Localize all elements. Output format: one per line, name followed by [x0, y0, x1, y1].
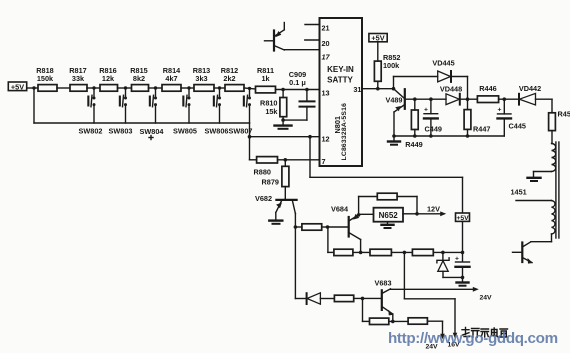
- power +5V box (top, above R852): [369, 34, 387, 43]
- transistor V683: [375, 279, 394, 322]
- wire R810/C909 bottom link: [283, 119, 307, 121]
- switch SW806: [205, 88, 229, 136]
- wire 24V lower branch: [426, 321, 445, 350]
- svg-text:R451: R451: [558, 110, 570, 119]
- junction node SW806 tap: [218, 86, 221, 89]
- svg-text:17: 17: [322, 53, 331, 62]
- svg-text:V489: V489: [385, 96, 402, 105]
- wire pin12 to +5V link: [310, 137, 463, 213]
- svg-text:8k2: 8k2: [133, 74, 145, 83]
- wire R815-R814: [149, 87, 163, 89]
- transistor V682: [255, 194, 297, 220]
- wire row2 (V683 emitter row): [389, 320, 443, 322]
- svg-text:13: 13: [322, 89, 330, 98]
- switch SW802: [79, 88, 103, 136]
- svg-text:21: 21: [322, 24, 330, 33]
- wire pin12 line: [250, 136, 320, 138]
- svg-text:+: +: [424, 107, 428, 114]
- resistor R817 33k: [69, 66, 87, 91]
- wire V684 base: [328, 226, 349, 228]
- resistor R447: [464, 99, 490, 136]
- junction node rail/R449: [413, 134, 417, 138]
- diode VD (V683 base): [307, 293, 321, 304]
- junction node row/+5V: [461, 251, 465, 255]
- wire base node drop to row: [328, 227, 334, 252]
- transformer T451 secondary coil: [552, 201, 555, 235]
- svg-text:1k: 1k: [261, 74, 270, 83]
- junction node ground link: [281, 118, 285, 122]
- wire pin7 line: [278, 159, 320, 161]
- junction node pin12/+5V drop: [308, 135, 312, 139]
- svg-text:12k: 12k: [102, 74, 115, 83]
- junction node V682/R-base: [294, 225, 298, 229]
- transistor V489: [385, 89, 404, 136]
- svg-text:R446: R446: [479, 84, 496, 93]
- switch SW803: [109, 88, 133, 136]
- resistor R449: [405, 99, 422, 149]
- wire coil2 bottom to Q2 collector: [531, 234, 552, 242]
- wire R818-R817: [57, 87, 70, 89]
- resistor R (loop above N652): [377, 193, 397, 200]
- junction node C449 top: [429, 97, 433, 101]
- svg-text:N652: N652: [379, 211, 399, 220]
- svg-text:R879: R879: [262, 178, 279, 187]
- capacitor C (electrolytic at +5V): [455, 256, 470, 278]
- switch SW804: [140, 88, 165, 140]
- svg-text:VD442: VD442: [519, 84, 541, 93]
- wire V682 collector drop: [294, 214, 296, 299]
- resistor R880: [250, 157, 278, 177]
- svg-text:7: 7: [322, 157, 326, 166]
- svg-text:V684: V684: [331, 205, 349, 214]
- transistor Q_top (PNP at pin 17): [265, 23, 285, 51]
- wire R812-R811: [244, 88, 256, 89]
- wire ground rail (V489 stage): [394, 135, 504, 137]
- svg-text:V683: V683: [375, 279, 392, 288]
- transformer T451 primary coil: [552, 144, 556, 172]
- wire bottom row (V684 emitter row): [353, 251, 463, 253]
- wire VD448 cathode to node: [460, 98, 478, 100]
- resistor R813 3k3: [193, 66, 214, 91]
- ground (V682 emitter): [269, 221, 282, 224]
- svg-text:SW804: SW804: [140, 127, 165, 136]
- junction node V489 base / VD445 branch: [392, 87, 396, 91]
- wire 16V branch: [404, 252, 460, 348]
- junction node bus/pin12: [248, 135, 252, 139]
- svg-text:2k2: 2k2: [223, 74, 235, 83]
- transistor Q2 (output, bottom right): [513, 242, 533, 264]
- wire V489 collector line: [405, 98, 446, 100]
- wire VD445 cathode to node: [451, 77, 468, 100]
- svg-text:C449: C449: [425, 125, 442, 134]
- resistor RC (row): [412, 249, 433, 255]
- junction node R810 top: [281, 88, 285, 92]
- wire bus corner down to pin12 line: [249, 123, 251, 160]
- junction node C445 top: [503, 97, 507, 101]
- svg-text:VD448: VD448: [440, 85, 462, 94]
- diode VD448: [440, 85, 462, 105]
- node label: to switching power supply (Chinese): [462, 328, 508, 338]
- svg-text:24V: 24V: [480, 295, 493, 302]
- junction node rail/emitter: [392, 134, 396, 138]
- wire pin13 line (R811 to IC): [276, 89, 320, 91]
- svg-text:V682: V682: [255, 194, 272, 203]
- ground (below R810): [275, 120, 292, 129]
- pin 17 wire: [284, 49, 319, 51]
- junction node rail/C449: [429, 134, 433, 138]
- svg-text:3k3: 3k3: [195, 74, 207, 83]
- pin 20 stub wire: [305, 39, 320, 41]
- resistor R814 4k7: [162, 66, 181, 91]
- junction node R852 bottom: [376, 87, 380, 91]
- resistor R816 12k: [99, 66, 117, 91]
- junction node V684 base: [326, 225, 330, 229]
- wire N652 output: [403, 213, 417, 215]
- resistor R812 2k2: [221, 66, 244, 91]
- resistor R446: [477, 84, 498, 103]
- resistor R451 (clipped at edge): [549, 110, 570, 144]
- switch SW805: [173, 88, 197, 136]
- junction node row/V684 emitter: [359, 251, 363, 255]
- transformer label 1451: [511, 188, 527, 197]
- svg-text:R447: R447: [473, 125, 490, 134]
- wire +5V box down to row: [462, 221, 464, 261]
- regulator N652: [374, 208, 404, 222]
- junction node SW804 tap: [154, 86, 157, 89]
- transformer T451 core: [556, 142, 559, 238]
- resistor R811 1k: [256, 66, 276, 93]
- wire +5V to R818: [27, 87, 38, 89]
- wire R817-R816: [87, 87, 100, 89]
- junction node R446 left / R447 / VD445: [466, 97, 470, 101]
- power +5V box (bottom right): [456, 213, 470, 222]
- ground (N652): [382, 222, 394, 228]
- wire diode to resistor: [320, 298, 334, 300]
- wire base resistor to V683: [354, 297, 382, 299]
- junction node SW805 tap: [187, 86, 190, 89]
- wire R813-R812: [214, 87, 225, 89]
- junction node 12V: [415, 212, 419, 216]
- svg-text:20: 20: [322, 39, 330, 48]
- junction node R879 top: [284, 158, 288, 162]
- wire 24V line (V683 collector): [391, 287, 493, 302]
- wire feedback loop up: [359, 197, 378, 215]
- resistor RA (row): [334, 249, 353, 255]
- svg-text:http://www.go-gddq.com: http://www.go-gddq.com: [388, 330, 558, 347]
- svg-text:SATTY: SATTY: [327, 76, 353, 85]
- resistor RB (row): [370, 249, 391, 255]
- resistor R (V683 base): [334, 295, 353, 301]
- svg-text:R449: R449: [405, 140, 422, 149]
- resistor R818 150k: [36, 66, 57, 91]
- wire left vertical to switch bus: [33, 88, 35, 123]
- junction node R449 top: [413, 97, 417, 101]
- switch SW807: [229, 88, 253, 135]
- svg-text:SW803: SW803: [109, 127, 133, 136]
- wire N652 input: [359, 213, 374, 215]
- svg-text:C445: C445: [509, 122, 526, 131]
- ground (cap bottom): [457, 277, 469, 285]
- op-amp U1 : IC N801 LC863328A-5S16 KEY-IN SATTY body: [320, 18, 363, 166]
- svg-text:R880: R880: [254, 168, 271, 177]
- capacitor C445 (electrolytic): [498, 99, 526, 136]
- junction node V684 top / N652 in: [357, 213, 361, 217]
- junction node row/zener: [441, 251, 445, 255]
- wire 12V arrow: [417, 205, 446, 217]
- junction node rail/R447: [466, 134, 470, 138]
- junction node at +5V feed: [32, 86, 35, 89]
- junction node C909 top: [305, 88, 309, 92]
- resistor R815 8k2: [130, 66, 148, 91]
- ground (transformer): [528, 178, 541, 181]
- svg-text:+5V: +5V: [11, 82, 24, 91]
- svg-text:33k: 33k: [72, 74, 85, 83]
- resistor R (V684 base): [295, 224, 327, 230]
- wire base node drop to row2: [363, 298, 370, 321]
- power +5V supply box left: [8, 82, 26, 91]
- ground (V489 rail): [388, 136, 400, 145]
- svg-text:4k7: 4k7: [165, 74, 177, 83]
- svg-text:1451: 1451: [511, 188, 527, 197]
- junction node SW807 tap: [248, 87, 251, 90]
- resistor RE (row2): [408, 318, 427, 324]
- capacitor C909 0.1u: [289, 70, 315, 120]
- svg-text:LC863328A-5S16: LC863328A-5S16: [341, 103, 348, 161]
- svg-text:SW802: SW802: [79, 127, 103, 136]
- wire loop right/down: [397, 197, 417, 214]
- wire coil2 top stub: [516, 200, 552, 202]
- svg-text:SW806: SW806: [205, 127, 229, 136]
- wire zener/cap bottom link: [443, 276, 463, 278]
- svg-text:100k: 100k: [383, 61, 400, 70]
- junction node SW803 tap: [124, 86, 127, 89]
- junction node row/16V drop: [403, 251, 407, 255]
- svg-text:12: 12: [322, 135, 330, 144]
- svg-text:+: +: [498, 107, 502, 114]
- svg-text:VD445: VD445: [432, 59, 454, 68]
- svg-text:31: 31: [353, 85, 361, 94]
- pin 31 wire: [362, 88, 394, 90]
- resistor RD (row2): [370, 318, 389, 324]
- wire R816-R815: [118, 87, 132, 89]
- wire V682 collector corner to diode: [295, 298, 306, 300]
- wire switch bus: [34, 122, 250, 124]
- junction node cap bottom: [461, 276, 465, 280]
- svg-text:12V: 12V: [427, 205, 440, 214]
- wire coil1 bottom to ground: [534, 172, 552, 177]
- resistor R852 100k: [374, 42, 400, 89]
- wire VD445 branch riser: [394, 77, 438, 89]
- svg-text:0.1 μ: 0.1 μ: [289, 78, 306, 87]
- junction node row2/emitter: [391, 320, 395, 324]
- watermark URL: [388, 330, 558, 347]
- svg-text:150k: 150k: [37, 74, 54, 83]
- transistor V684: [331, 205, 361, 253]
- capacitor C449 (electrolytic): [424, 99, 442, 136]
- resistor R810 15k: [260, 90, 287, 121]
- junction node SW802 tap: [92, 86, 95, 89]
- zener diode VZ: [437, 252, 449, 277]
- pin 21 stub wire: [305, 24, 320, 26]
- svg-text:SW805: SW805: [173, 127, 197, 136]
- junction node V683 base: [361, 297, 365, 301]
- diode VD442: [519, 84, 541, 105]
- svg-text:15k: 15k: [265, 107, 278, 116]
- wire VD442 to R451: [536, 99, 553, 113]
- wire R446 to VD442: [499, 98, 519, 100]
- svg-text:KEY-IN: KEY-IN: [327, 65, 354, 74]
- svg-text:+: +: [455, 256, 459, 263]
- resistor R879: [262, 160, 289, 199]
- wire R814-R813: [181, 87, 194, 89]
- diode VD445: [432, 59, 454, 82]
